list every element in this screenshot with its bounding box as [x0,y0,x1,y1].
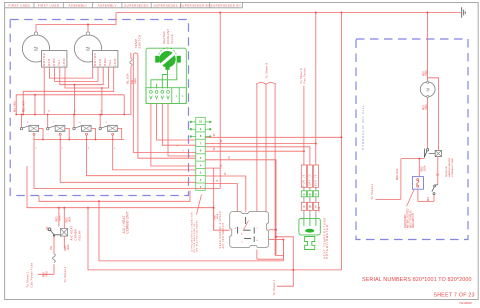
breaker output bus [34,139,124,141]
valve connector strip [146,88,186,104]
svg-text:Sw: Sw [436,175,440,177]
drop at 220 feed wire [219,13,221,189]
svg-text:HARNESS BESIDE: HARNESS BESIDE [448,157,451,177]
circuit breaker CB3 [73,111,96,150]
svg-text:BLK 16: BLK 16 [316,174,318,186]
bottom-left feed wires L1 L2 [27,166,214,230]
leader to minibox [407,190,414,207]
valve connector terminals [150,91,170,99]
svg-text:VALVE: VALVE [170,34,174,44]
svg-text:THE ELECTRICAL PANEL: THE ELECTRICAL PANEL [196,219,199,252]
drop at 427.5 to pump [427,13,429,82]
svg-text:1: 1 [176,94,178,98]
svg-text:14GA: 14GA [45,271,48,277]
svg-text:To Sheet 8: To Sheet 8 [265,62,269,78]
twisted pair to strip [133,54,196,152]
header labels [8,3,241,7]
riser 74 [73,85,75,115]
tiny wire number labels right of strip [214,133,231,182]
blue dashed box hydraulic oil fill [356,39,468,240]
wire bottom bus 1 [99,201,283,261]
long bottom buses [88,201,341,286]
svg-text:METER LOCATED: METER LOCATED [407,208,410,228]
svg-text:B: B [309,193,312,197]
hydraulic area: pump feed [428,78,439,151]
hydraulic fill pump motor [420,81,435,97]
svg-text:1: 1 [183,150,185,152]
a/c heat combo relay [48,208,67,237]
pressure switch small [428,157,440,201]
svg-text:C: C [315,193,318,197]
label A/C HEAT COMBO RELAY [70,225,82,240]
svg-text:6: 6 [200,149,202,153]
red wiring: motor harness weave [16,67,131,114]
svg-text:FOR HOURS: FOR HOURS [405,214,407,228]
hydraulic fill switch [424,149,441,158]
wire valve pin3 to strip [162,103,196,145]
junction dots top [87,12,429,26]
labels bottom left [44,244,71,277]
staircase wires to 12-pin strip [34,135,220,188]
label 12 PIN DEUTSCH CONNECTOR [191,212,198,253]
svg-text:RED: RED [214,214,216,219]
wire A horizontal [36,13,116,25]
wire minibox down [418,189,434,201]
dots on right wires [303,136,343,152]
svg-text:42: 42 [221,139,223,142]
svg-text:14GA: 14GA [134,78,137,84]
svg-text:SUPERSEDED BY: SUPERSEDED BY [211,3,242,7]
svg-text:RED: RED [423,71,425,76]
svg-text:Fan Switch: Fan Switch [303,67,307,83]
svg-text:YEL: YEL [108,59,112,66]
fan switch body [230,212,269,248]
wire strip pin1 to fan switch top [205,184,237,212]
weave pair 4 [65,67,109,88]
svg-text:LOW: LOW [62,58,66,66]
svg-text:8: 8 [200,134,202,138]
svg-text:ASSEMBLY: ASSEMBLY [98,3,117,7]
circuit breaker CB4 [99,111,122,150]
valve internal wires green [151,63,177,89]
motor M2 [74,32,101,62]
svg-text:9: 9 [200,127,202,131]
svg-text:2: 2 [62,148,64,150]
wire strip pin6 to pot C feed [205,143,316,145]
wire to sheet 1 stub [277,270,293,286]
drop at 315 to potentiometer [315,13,317,166]
gray stubs [304,187,316,191]
wire strip pin3 to feed net [205,167,220,169]
svg-text:GRY 16: GRY 16 [310,174,312,186]
svg-text:10: 10 [199,120,203,124]
svg-text:RED: RED [67,217,69,222]
svg-text:52: 52 [221,164,223,167]
svg-text:MOTOR: MOTOR [42,53,46,66]
wire valve pin4 to strip [168,103,196,156]
svg-text:To Sheet 1: To Sheet 1 [63,266,67,283]
svg-text:SERIAL NUMBERS 820*1001 TO: SERIAL NUMBERS 820*1001 TO 820*2000 [362,277,472,283]
svg-text:5: 5 [200,156,202,160]
weave pair 1 [49,67,92,78]
wire bus L2 [27,166,214,208]
weave long line 16 to 124 [16,95,124,115]
svg-text:M: M [86,46,92,51]
svg-text:15A: 15A [50,245,53,250]
svg-text:HEATER: HEATER [162,31,166,44]
svg-text:HYDRAULIC OIL FILL: HYDRAULIC OIL FILL [361,104,365,150]
svg-text:RED: RED [423,105,425,110]
svg-text:RED 16GA: RED 16GA [396,168,399,180]
riser 124 [123,95,125,115]
wire relay to fuse [38,236,64,274]
svg-text:RELAY: RELAY [78,230,82,240]
riser 102 [101,88,103,115]
wire box1 col1 long drop [43,67,45,114]
svg-text:RED: RED [98,58,102,66]
svg-text:ASSEMBLY: ASSEMBLY [68,3,87,7]
svg-text:FIRST USED: FIRST USED [38,3,60,7]
svg-text:12: 12 [217,179,219,182]
svg-text:HYDRAULIC TANK: HYDRAULIC TANK [451,158,454,177]
svg-text:1: 1 [182,94,184,98]
wire B to ground [116,12,461,14]
svg-text:3: 3 [88,148,90,150]
switch output to sheet 1 [376,159,425,200]
drop at 341 long vertical [340,13,342,270]
svg-text:RED: RED [65,245,67,250]
svg-text:8: 8 [106,122,108,124]
svg-text:ORG: ORG [103,58,107,66]
strip right-side wires [205,137,341,255]
wire bottom bus 2 [88,208,341,270]
svg-text:62: 62 [229,155,231,158]
wire M2 terminal up [87,25,89,33]
relay minibox [418,159,420,177]
green ABC connector [301,191,318,197]
svg-text:12 PIN DEUTSCH CONNECTOR: 12 PIN DEUTSCH CONNECTOR [191,212,193,253]
wire bus L1 [39,191,190,202]
svg-text:A: A [303,193,306,197]
connector box under M1 [42,51,67,68]
wire strip to pot B feed [205,147,310,165]
svg-text:To Sheet 1: To Sheet 1 [370,183,374,200]
wire pump to fill switch [427,97,429,148]
wire pump bypass to switch box [428,78,439,151]
blue dashed box cab console [10,20,188,196]
svg-text:14GA: 14GA [216,213,219,219]
heater coolant valve green box [146,48,186,103]
svg-text:B: B [309,205,312,209]
svg-text:SUPERSEDED BY: SUPERSEDED BY [180,3,211,7]
svg-text:COMBO UNIT: COMBO UNIT [126,211,130,233]
svg-text:YEL 16GA: YEL 16GA [127,73,130,84]
svg-text:To Sheet 1: To Sheet 1 [26,271,30,288]
svg-text:1: 1 [35,148,37,150]
wire strip pin4 to fan switch net [205,160,283,256]
svg-text:7: 7 [53,122,55,124]
svg-text:AND SWITCH: AND SWITCH [412,213,415,228]
potentiometer plug [305,237,315,250]
breaker top bus [16,114,131,116]
wire strip pin7 to net 341 [205,136,341,138]
svg-text:M: M [34,46,40,51]
valve symbol [155,48,181,70]
wire strip pin5 to pot A feed [205,150,304,152]
svg-text:RED: RED [57,216,59,221]
svg-text:14GA: 14GA [425,70,428,76]
svg-text:RED: RED [422,166,424,171]
svg-text:COOLANT: COOLANT [166,29,170,44]
svg-text:6: 6 [79,122,81,124]
svg-text:RED: RED [47,58,51,66]
labels above relay [47,215,72,230]
wire M1 terminal up [35,25,37,33]
wire to fan switch pin A [214,168,230,230]
cab power fuse [53,254,56,263]
svg-text:Cab Power Fuse: Cab Power Fuse [30,262,34,287]
12 pin terminal strip [196,117,205,190]
svg-text:16GA: 16GA [423,165,426,171]
svg-text:FIRST USED: FIRST USED [8,3,30,7]
svg-text:73214BRD: 73214BRD [459,301,472,305]
svg-text:C: C [315,205,318,209]
svg-text:4: 4 [114,148,116,150]
svg-text:BLK: BLK [428,196,430,201]
red wiring: top feed to ground [36,13,461,270]
svg-text:92: 92 [225,172,227,175]
red ABC connector [301,202,318,210]
svg-text:5: 5 [27,122,29,124]
wire strip pin2 to fan switch top [205,176,246,212]
wire valve pin1 to strip [151,103,196,166]
svg-text:M: M [425,88,430,92]
svg-text:4: 4 [200,163,202,167]
svg-text:14GA: 14GA [67,244,70,250]
weave pair 2 [55,67,98,81]
svg-text:7: 7 [200,141,202,145]
svg-text:4: 4 [74,111,76,113]
svg-text:YEL: YEL [57,59,61,66]
svg-text:BLK 14GA: BLK 14GA [14,101,17,112]
svg-text:NEXT TO RELAY: NEXT TO RELAY [409,210,412,228]
svg-text:3: 3 [200,171,202,175]
wire labels near weave [14,78,137,112]
svg-text:SUPERSEDES: SUPERSEDES [154,3,179,7]
weave junction dots [15,84,125,116]
svg-text:POTENTIOMETER: POTENTIOMETER [325,224,329,259]
svg-text:A/C FAN SWITCH: A/C FAN SWITCH [222,223,225,249]
svg-text:22: 22 [214,133,216,136]
strip side pins [190,121,211,137]
svg-text:SHEET 7 OF 23: SHEET 7 OF 23 [434,293,475,299]
wire valve pin2 to strip [157,103,196,140]
svg-text:ORG: ORG [52,58,56,66]
svg-text:RED: RED [44,272,46,277]
connector box under M2 [93,51,118,68]
thermal temp switch wire [130,53,132,115]
ground symbol [462,7,466,18]
svg-text:14GA: 14GA [68,216,71,222]
svg-text:2: 2 [200,178,202,182]
svg-text:ON THE BACKSIDE OF: ON THE BACKSIDE OF [193,223,196,253]
circuit breaker CB2 [47,111,70,150]
circuit breaker CB1 [20,111,43,150]
weave pair 3 [60,67,103,85]
potentiometer body [299,218,320,235]
svg-text:10: 10 [47,111,50,113]
fan switch right wires [257,230,293,270]
temp switch symbol [130,58,132,66]
label FOR HOURS METER [405,208,415,228]
potentiometer connector column [301,165,318,187]
svg-text:82: 82 [214,147,216,150]
svg-text:To Sheet 8: To Sheet 8 [299,68,303,84]
svg-text:To Sheet 1: To Sheet 1 [272,279,276,296]
svg-text:MOTOR: MOTOR [93,53,97,66]
svg-text:A: A [303,205,306,209]
svg-text:14GA: 14GA [425,104,428,110]
svg-text:LOW: LOW [113,58,117,66]
motor M1 [22,32,49,62]
header row [5,3,243,8]
valve red wires down to strip [151,103,196,166]
weave long line to riser 23 [23,67,114,114]
svg-text:SUPERSEDES: SUPERSEDES [124,3,149,7]
svg-text:RELAY ON: RELAY ON [445,166,448,177]
riser 35 [34,95,36,115]
svg-text:16GA: 16GA [318,206,321,212]
svg-text:PUR 16: PUR 16 [304,174,306,186]
svg-text:SWITCH: SWITCH [137,34,141,48]
label RELAY ON HARNESS BESIDE HYDRAULIC TANK [445,157,454,177]
